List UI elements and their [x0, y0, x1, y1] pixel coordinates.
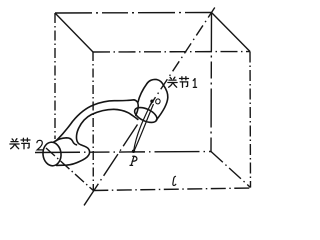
link tube lower contour (right part to joint-1 ellipse): [114, 109, 138, 119]
small circle o on joint-1 cylinder: [155, 98, 161, 104]
joint-1 axis line lower part through P crossing to below C': [84, 125, 138, 206]
joint-1 cylinder right side: [156, 85, 168, 120]
wire box edge E-F (bottom right receding, dash-dot): [211, 152, 251, 188]
wire box edge A-B (top back, dash-dot): [55, 12, 212, 15]
wire box edge B-E (back right vertical, dash-dot): [210, 13, 213, 152]
label l: [173, 176, 176, 185]
wire box edge A-A' (left vertical, dash-dot): [54, 13, 56, 139]
pivot dot on joint-1 cylinder: [150, 100, 153, 103]
joint-1 end cap ellipse: [132, 104, 159, 125]
joint-2 cylinder end cap ellipse: [42, 141, 62, 166]
wire box edge A-C (top left receding, solid): [55, 13, 93, 52]
wire box edge D-F (front right vertical, dash-dot): [249, 52, 252, 188]
label 关节1: [168, 77, 177, 87]
label P: [130, 156, 137, 165]
joint-2 cylinder top edge: [54, 138, 77, 145]
point P dot: [132, 150, 135, 153]
digit 1 of 关节1: [193, 79, 196, 88]
joint-1 axis line B through cylinder (dash-dot upper part): [150, 8, 215, 106]
digit 2 of 关节2: [37, 140, 43, 150]
joint-2 axis / bottom back edge A'-E (dash-dot): [35, 152, 211, 153]
rod edge L2 to P: [134, 105, 153, 151]
wire box edge C-D (top front, dash-dot): [93, 51, 250, 54]
joint-1 cylinder top cap: [147, 79, 164, 85]
label 关节2: [10, 139, 19, 149]
rod edge L1 to P: [134, 103, 152, 151]
link tube upper contour: [57, 100, 139, 141]
wire box edge A'-C' (bottom left receding, dash-dot): [46, 148, 93, 191]
wire box edge C-C' (front left vertical, dash-dot): [92, 52, 94, 191]
wire box edge C'-F (bottom front, dash-dot): [93, 188, 250, 191]
joint-1 cylinder left side: [138, 84, 147, 103]
wire box edge B-D (top right receding, solid): [212, 13, 251, 52]
joint-2 base right side + bottom contour: [57, 109, 114, 165]
